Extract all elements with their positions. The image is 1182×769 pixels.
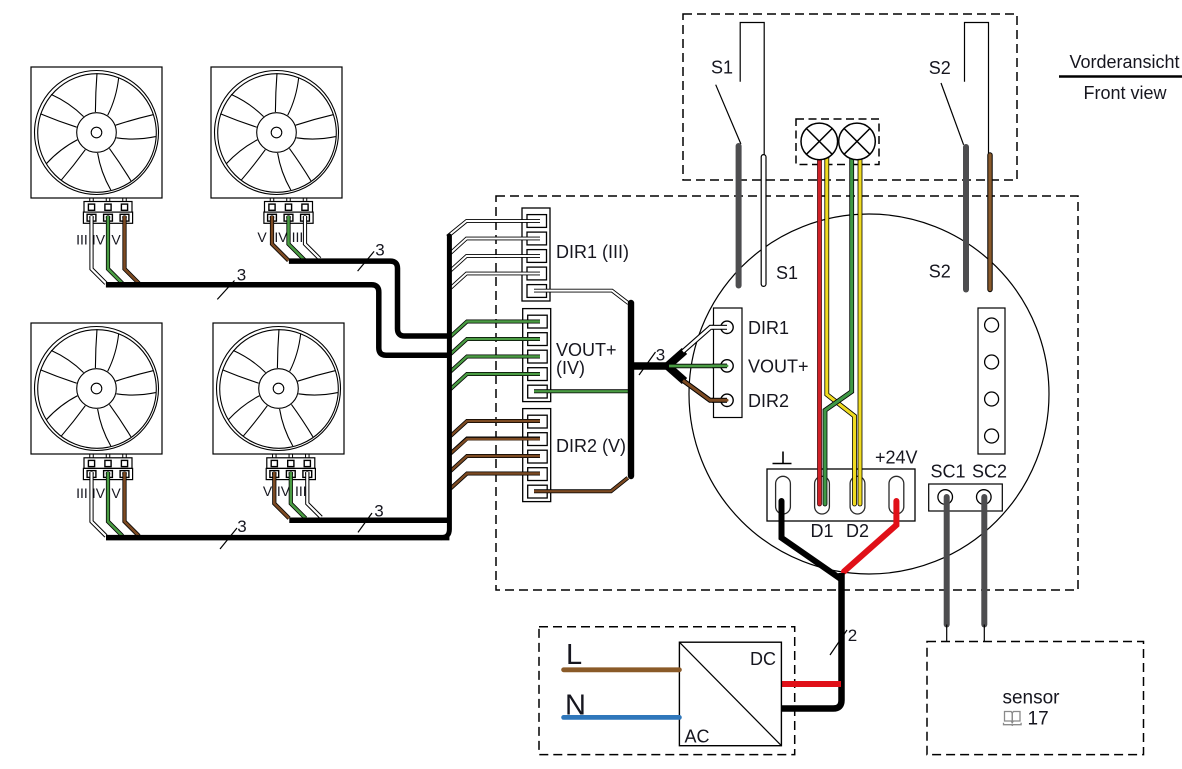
- S1 wire b (white): [761, 157, 767, 284]
- svg-text:S1: S1: [776, 263, 798, 283]
- terminal block VOUT+ (IV): [523, 309, 551, 402]
- fan motor M4 (bottom right): [213, 323, 344, 454]
- N neutral wire (blue): [564, 715, 680, 720]
- controller circle: [689, 214, 1049, 574]
- cable M3 size slash: [220, 528, 237, 549]
- S1 wire a (dark): [736, 146, 742, 286]
- cable fan M4 (3-wire): [289, 518, 447, 524]
- harness Y split upper arm: [668, 351, 685, 366]
- svg-text:DIR1 (III): DIR1 (III): [556, 242, 629, 262]
- spare terminal block (4 circles): [978, 308, 1005, 454]
- svg-text:D2: D2: [846, 521, 869, 541]
- white wires to DIR1 block: [448, 221, 541, 289]
- wire from DIR2 out terminal (brown): [534, 478, 628, 492]
- L line wire (brown): [564, 667, 680, 672]
- svg-text:VOUT+: VOUT+: [748, 357, 809, 377]
- DC+ red wire from power supply: [782, 681, 842, 687]
- fan motor M2 (top right): [211, 67, 342, 198]
- wire Y to VOUT+ input (green): [669, 364, 727, 369]
- cable M4 size slash: [358, 513, 372, 532]
- svg-text:III: III: [292, 229, 304, 245]
- svg-text:IV: IV: [274, 229, 288, 245]
- lamp H2: [839, 123, 876, 160]
- SC2 sensor wire: [981, 497, 987, 625]
- wire tip into DIR1 terminal: [712, 325, 727, 330]
- svg-text:3: 3: [374, 502, 383, 521]
- fan M1 wire IV (green): [108, 216, 122, 283]
- power supply AC/DC converter: [679, 642, 781, 746]
- svg-text:IV: IV: [277, 483, 291, 499]
- controller input terminal block: [714, 308, 743, 418]
- S2 wire a (dark): [963, 147, 969, 290]
- svg-text:VOUT+: VOUT+: [556, 340, 617, 360]
- cable fan M3 (3-wire): [106, 535, 449, 541]
- cable fan M2 (3-wire): [289, 261, 450, 336]
- fan M4 wire V (brown): [274, 472, 289, 518]
- svg-text:III: III: [295, 483, 307, 499]
- lamp H1: [801, 123, 838, 160]
- svg-text:S2: S2: [929, 58, 951, 78]
- svg-text:III: III: [76, 232, 88, 248]
- svg-text:S1: S1: [711, 58, 733, 78]
- svg-text:V: V: [111, 485, 121, 501]
- fan M2 wire IV (green): [289, 216, 306, 261]
- GND wire from terminal strip (black): [782, 501, 842, 580]
- fan M4 wire III (white): [307, 472, 321, 517]
- fan motor M3 (bottom left): [31, 323, 162, 454]
- lamp H2 yellow wire to D2: [858, 150, 863, 504]
- terminal block DIR1 (III): [522, 208, 550, 301]
- wire Y to DIR2 input (brown): [683, 381, 727, 401]
- fan M3 wire IV (green): [108, 472, 123, 536]
- harness stub to junction: [631, 362, 668, 370]
- fan M4 plug connector: [266, 454, 315, 479]
- svg-text:Vorderansicht: Vorderansicht: [1069, 52, 1179, 72]
- fan M2 plug connector: [264, 198, 313, 223]
- power cable size slash: [830, 630, 847, 655]
- lamp dashed box: [796, 119, 879, 165]
- fan motor M1 (top left): [31, 67, 162, 198]
- fan M2 wire V (brown): [272, 216, 289, 261]
- svg-text:V: V: [257, 229, 267, 245]
- svg-text:Front view: Front view: [1083, 83, 1167, 103]
- svg-text:DIR2: DIR2: [748, 391, 789, 411]
- svg-text:DIR1: DIR1: [748, 318, 789, 338]
- cable M2 size slash: [358, 251, 375, 271]
- svg-text:17: 17: [1028, 709, 1049, 730]
- svg-text:SC1: SC1: [931, 462, 966, 482]
- brown wires to DIR2 block: [450, 421, 540, 489]
- svg-text:3: 3: [375, 241, 384, 260]
- svg-text:+24V: +24V: [875, 448, 918, 468]
- sensor dashed box: [927, 642, 1144, 755]
- svg-text:3: 3: [656, 346, 665, 365]
- svg-text:S2: S2: [929, 262, 951, 282]
- fan M3 wire III (white): [92, 472, 107, 536]
- fan M1 wire III (white): [92, 216, 106, 283]
- lamp H1 red wire to D1: [817, 150, 822, 504]
- harness bundle bar: [628, 303, 634, 476]
- harness size slash: [639, 352, 656, 375]
- wire from VOUT+ out terminal (green): [534, 389, 629, 393]
- wire Y to DIR1 input (white): [683, 327, 727, 351]
- power supply dashed box: [539, 627, 795, 755]
- cable fan M1 (3-wire): [106, 285, 450, 355]
- svg-text:DC: DC: [750, 649, 776, 669]
- svg-text:V: V: [263, 483, 273, 499]
- terminal block DIR2 (V): [523, 409, 551, 502]
- SC terminal block: [929, 484, 1003, 511]
- wire from DIR1 out terminal (white): [534, 291, 629, 304]
- ground symbol: [773, 452, 792, 464]
- trunk cable bundle: [441, 236, 449, 538]
- svg-text:IV: IV: [92, 485, 106, 501]
- svg-text:L: L: [566, 639, 582, 671]
- svg-text:AC: AC: [685, 727, 710, 747]
- fan M1 wire V (brown): [125, 216, 139, 283]
- fan M4 wire IV (green): [291, 472, 306, 518]
- power supply 2-wire cable: [782, 573, 842, 709]
- S2 wire b (brown): [987, 155, 992, 290]
- book icon: [1004, 712, 1022, 726]
- SC1 sensor wire: [944, 497, 950, 625]
- lamp H2 green wire to D1 (crossover): [825, 150, 852, 504]
- svg-text:III: III: [76, 485, 88, 501]
- green wires to VOUT+ block: [450, 322, 540, 390]
- svg-text:IV: IV: [92, 232, 106, 248]
- Vorderansicht / Front view title: [1059, 52, 1182, 103]
- fan M3 plug connector: [83, 454, 132, 479]
- harness Y split lower arm: [668, 366, 685, 381]
- svg-text:(IV): (IV): [556, 358, 585, 378]
- svg-text:SC2: SC2: [972, 462, 1007, 482]
- +24V wire from terminal strip (red): [844, 501, 896, 572]
- svg-text:3: 3: [237, 517, 246, 536]
- svg-text:DIR2 (V): DIR2 (V): [556, 436, 626, 456]
- svg-text:3: 3: [237, 266, 246, 285]
- wire tip into VOUT+ terminal: [712, 364, 727, 369]
- fan M3 wire V (brown): [125, 472, 140, 536]
- cable M1 size slash: [217, 281, 234, 300]
- top accessories dashed box: [683, 14, 1017, 180]
- svg-text:N: N: [565, 690, 586, 722]
- svg-text:V: V: [111, 232, 121, 248]
- svg-text:sensor: sensor: [1002, 688, 1060, 709]
- svg-text:2: 2: [848, 626, 857, 645]
- wire tip into DIR2 terminal: [712, 398, 727, 403]
- fan M2 wire III (white): [305, 216, 320, 259]
- controller dashed box: [496, 196, 1078, 590]
- svg-text:D1: D1: [810, 521, 833, 541]
- fan M1 plug connector: [83, 198, 132, 223]
- lamp H1 yellow wire to D2 (crossover): [827, 150, 855, 504]
